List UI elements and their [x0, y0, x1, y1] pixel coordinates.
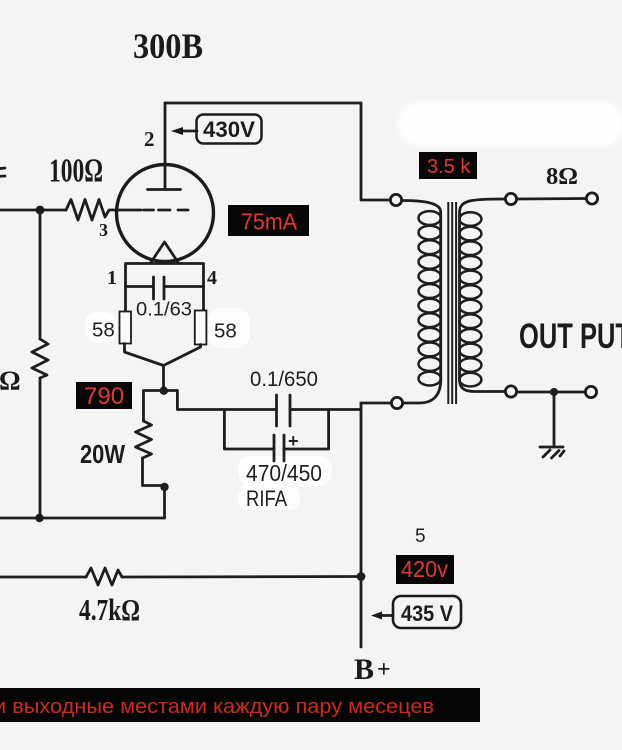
svg-text:Ω: Ω	[0, 366, 21, 396]
svg-text:4: 4	[207, 267, 217, 289]
tube grid dashes	[144, 209, 189, 212]
svg-text:B+: B+	[354, 653, 391, 686]
svg-text:420v: 420v	[401, 556, 448, 582]
svg-text:470/450: 470/450	[246, 460, 322, 486]
svg-text:4.7kΩ: 4.7kΩ	[79, 592, 140, 627]
label 58 left	[92, 319, 115, 342]
wire feed resistor run left	[0, 576, 86, 579]
label 790 red box	[76, 382, 132, 410]
resistor 58 left box	[120, 312, 132, 344]
pin label 1	[107, 267, 117, 289]
tube plate bar	[148, 188, 181, 191]
resistor 4.7k zigzag	[86, 568, 122, 585]
resistor 58 right box	[195, 311, 207, 345]
transformer primary coil	[402, 201, 441, 404]
tube cathode V	[151, 242, 179, 263]
terminal primary top	[390, 194, 401, 205]
pin label 2	[144, 127, 155, 151]
svg-text:20W: 20W	[80, 439, 125, 469]
resistor 20W zigzag	[136, 421, 152, 458]
pin label 4	[207, 267, 217, 289]
wire left vertical upper	[39, 210, 42, 339]
label 3.5k red box	[419, 152, 477, 179]
svg-text:100Ω: 100Ω	[49, 153, 103, 190]
svg-text:0.1/63: 0.1/63	[136, 300, 192, 321]
label ohm left edge	[0, 366, 21, 396]
banner russian text	[0, 696, 434, 718]
label 8ohm	[546, 164, 578, 190]
label B+	[354, 653, 391, 686]
wire B+ vertical	[360, 403, 363, 647]
label 5	[415, 526, 426, 547]
wire electrolytic branch	[224, 410, 328, 450]
label 4.7kohm	[79, 592, 140, 627]
svg-text:RIFA: RIFA	[246, 486, 287, 511]
label RIFA	[246, 486, 287, 511]
node dot B+ tap	[357, 572, 366, 581]
node junction dot grid-left	[36, 206, 45, 215]
node dot secondary ground tap	[550, 388, 558, 396]
label 470/450	[246, 460, 322, 486]
wire secondary top run	[517, 197, 586, 200]
svg-text:5: 5	[415, 526, 426, 547]
wire grid input from left edge	[0, 209, 66, 212]
terminal output top right	[586, 193, 597, 204]
wire bypass branch from cathode junction	[164, 391, 361, 410]
wire left vertical lower	[39, 378, 42, 518]
white halo RIFA	[238, 484, 300, 510]
label 20W	[80, 439, 125, 469]
wire staple to cathode resistor	[144, 391, 164, 422]
wire primary bottom to B+ line	[361, 402, 391, 405]
svg-text:2: 2	[144, 127, 155, 151]
white halo right 58	[208, 308, 250, 348]
node cathode junction dot	[160, 387, 168, 395]
label 0.1/650	[250, 368, 318, 391]
label plus polarity	[288, 431, 299, 451]
svg-text:75mA: 75mA	[241, 209, 298, 235]
white correction blob top right	[398, 102, 622, 146]
capacitor 0.1/63 plates	[154, 277, 165, 299]
capacitor 0.1/63 wires	[126, 285, 204, 288]
label 300B	[133, 26, 203, 66]
svg-text:OUT PUT: OUT PUT	[519, 317, 622, 356]
node dot below 20W	[160, 483, 168, 491]
svg-text:58: 58	[214, 320, 237, 343]
wire plate top run	[165, 102, 361, 105]
svg-text:58: 58	[92, 319, 115, 342]
svg-text:+: +	[288, 431, 299, 451]
svg-text:3.5 k: 3.5 k	[427, 156, 471, 178]
svg-text:430V: 430V	[203, 117, 255, 142]
equals mark at left edge	[0, 168, 5, 177]
svg-text:1: 1	[107, 267, 117, 289]
svg-text:300B: 300B	[133, 26, 203, 66]
svg-text:3: 3	[99, 220, 108, 240]
arrow to 435V	[371, 612, 393, 620]
label 100ohm	[49, 153, 103, 190]
wire to ground	[553, 392, 556, 445]
terminal primary bottom	[391, 397, 402, 408]
svg-text:и выходные местами каждую пару: и выходные местами каждую пару месецев	[0, 696, 434, 718]
label 420v red box	[396, 555, 454, 584]
capacitor 0.1/650 plates	[277, 395, 291, 426]
arrow to 430V	[171, 127, 197, 135]
transformer core laminations	[448, 202, 456, 404]
svg-text:435 V: 435 V	[401, 601, 453, 626]
wire feed resistor run right	[122, 575, 361, 578]
label OUTPUT	[519, 317, 622, 356]
wire right vertical to primary	[361, 103, 390, 200]
filament box top	[126, 264, 204, 312]
node dot cathode bus left	[35, 514, 43, 522]
wire cathode V-join	[125, 344, 201, 392]
terminal secondary bottom	[505, 386, 516, 397]
terminal secondary top	[505, 193, 516, 204]
svg-text:790: 790	[84, 383, 124, 410]
svg-text:0.1/650: 0.1/650	[250, 368, 318, 391]
svg-text:8Ω: 8Ω	[546, 164, 578, 190]
terminal output bottom right	[585, 386, 596, 397]
tube 300B envelope	[117, 165, 214, 262]
wire cathode bus horizontal	[0, 517, 165, 520]
pin label 3	[99, 220, 108, 240]
ground symbol	[540, 447, 564, 458]
capacitor 470/450 plates	[274, 435, 284, 461]
white halo left 58	[85, 312, 117, 343]
tube plate lead	[164, 103, 167, 188]
white halo 470/450	[238, 456, 332, 486]
transformer secondary coil	[459, 199, 505, 392]
callout box 435V	[393, 596, 461, 628]
callout box 430V	[197, 115, 262, 144]
resistor R 100ohm zigzag	[66, 200, 118, 221]
label 58 right	[214, 320, 237, 343]
banner black strip	[0, 688, 480, 722]
wire secondary bottom run	[517, 391, 585, 394]
wire below 20W resistor	[143, 458, 165, 486]
wire down to cathode bus	[163, 487, 166, 518]
resistor R-left zigzag on vertical line	[32, 339, 48, 378]
label 0.1/63	[136, 300, 192, 321]
label 75mA red box	[228, 205, 309, 236]
